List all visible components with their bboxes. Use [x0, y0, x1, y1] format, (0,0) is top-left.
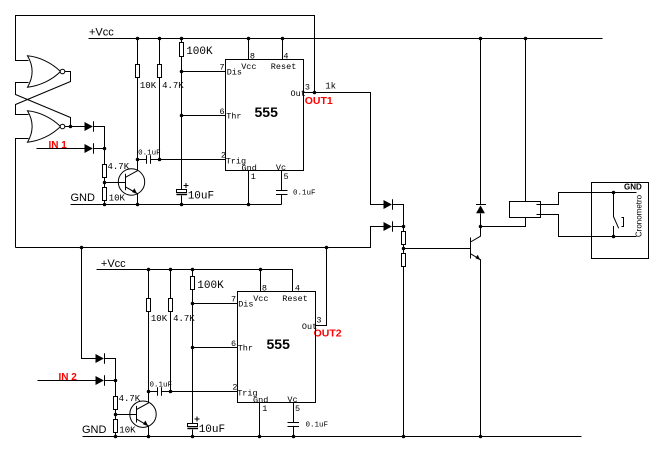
- wire D4 cathode to node B: [393, 226, 404, 228]
- capacitor 0.1uF coupling: [138, 155, 160, 163]
- wire Dis pin7: [182, 71, 226, 73]
- diode D5: [96, 353, 105, 364]
- svg-text:1k: 1k: [325, 81, 336, 91]
- node flyback to Vcc: [479, 37, 483, 41]
- node Q2 base junction: [114, 413, 118, 417]
- wire Dis2 pin7: [193, 303, 238, 305]
- resistor 10K collector Q1: [136, 39, 140, 160]
- node OUT1: [313, 91, 317, 95]
- op-amp U3 555 timer box 2: [238, 292, 316, 403]
- box Cronometro: [592, 183, 649, 259]
- svg-text:100K: 100K: [186, 46, 213, 58]
- node switch top terminal: [612, 191, 616, 195]
- wire OUT1 to diode D3: [315, 93, 384, 205]
- resistor 100K timing 2: [191, 270, 195, 424]
- wire U2B out to U2A input cross couple B: [16, 83, 71, 127]
- node Q3 emitter to GND2: [479, 435, 483, 439]
- svg-text:10uF: 10uF: [199, 424, 225, 436]
- resistor R base chain lower: [402, 254, 406, 437]
- relay RL1 coil box: [510, 202, 541, 218]
- wire Vcc to relay coil: [525, 39, 527, 202]
- wire Thr2 pin6: [193, 347, 238, 349]
- node IN2 riser junction: [80, 246, 84, 250]
- wire D2 cathode to node IN1: [94, 148, 105, 150]
- wire D3 cathode to node B: [393, 205, 404, 227]
- ground rail GND2: [83, 436, 582, 438]
- node latch output junction: [69, 125, 73, 129]
- node 10K to Vcc2: [147, 268, 151, 272]
- svg-text:Dis: Dis: [238, 300, 253, 310]
- svg-text:Reset: Reset: [282, 294, 308, 304]
- wire IN 2 input: [38, 380, 96, 382]
- wire trig to pin2: [160, 159, 226, 161]
- node Q3 base junction: [402, 247, 406, 251]
- node 10uF to GND1: [180, 203, 184, 207]
- pin 5 Vc stub 2: [293, 403, 295, 423]
- svg-text:Thr: Thr: [226, 111, 241, 121]
- node trig junction: [158, 158, 162, 162]
- svg-text:555: 555: [255, 104, 279, 120]
- wire IN 1 input: [37, 148, 85, 150]
- node 100K to Vcc2: [191, 268, 195, 272]
- wire base Q1: [105, 182, 126, 184]
- node discharge2 junction: [191, 302, 195, 306]
- wire Q3 base: [404, 248, 471, 250]
- svg-text:0.1uF: 0.1uF: [150, 382, 173, 390]
- svg-text:4: 4: [295, 284, 300, 294]
- node OUT2 riser junction: [325, 246, 329, 250]
- svg-text:Vcc: Vcc: [241, 62, 256, 72]
- svg-text:Thr: Thr: [238, 343, 253, 353]
- wire relay contact NO: [537, 215, 637, 237]
- svg-text:IN 1: IN 1: [49, 140, 68, 151]
- node 100K to Vcc: [180, 37, 184, 41]
- svg-text:10K: 10K: [119, 426, 136, 436]
- svg-text:5: 5: [295, 404, 300, 414]
- power rail +Vcc top: [89, 38, 603, 40]
- wire U2B lower input to bottom loop: [16, 139, 29, 248]
- wire OUT2 riser: [316, 248, 327, 326]
- svg-text:OUT1: OUT1: [305, 95, 333, 107]
- nor-gate U2A latch top: [28, 56, 65, 87]
- svg-text:GND: GND: [71, 192, 96, 204]
- capacitor 10uF timing 2: [187, 417, 199, 437]
- wire bottom loop OUT2 feedback: [16, 227, 384, 248]
- diode D3: [384, 199, 393, 210]
- wire trig2 to pin2: [171, 391, 238, 393]
- capacitor 0.1uF control 2: [288, 423, 300, 437]
- diode D1: [85, 121, 94, 132]
- node 4.7K to Vcc2: [169, 268, 173, 272]
- node threshold2 junction: [191, 346, 195, 350]
- svg-text:Cronometro: Cronometro: [635, 194, 644, 237]
- pin 1 Gnd stub: [248, 171, 250, 205]
- node Q1 base junction: [103, 181, 107, 185]
- svg-text:Dis: Dis: [227, 68, 242, 78]
- node switch bottom terminal: [612, 235, 616, 239]
- svg-text:10K: 10K: [140, 81, 157, 91]
- svg-text:Reset: Reset: [271, 62, 297, 72]
- wire U2A out to U2B input cross couple A: [16, 72, 71, 115]
- svg-text:7: 7: [220, 62, 225, 72]
- resistor 10K pulldown Q1: [103, 183, 107, 205]
- node discharge junction: [180, 70, 184, 74]
- pin 8 Vcc stub 2: [260, 270, 262, 292]
- op-amp U1 555 timer box: [226, 60, 304, 171]
- ground rail GND1: [71, 204, 282, 206]
- svg-text:10K: 10K: [109, 194, 126, 204]
- diode D4: [384, 221, 393, 232]
- transistor Q2: [130, 392, 156, 437]
- node 10K to Vcc: [136, 37, 140, 41]
- svg-text:10K: 10K: [151, 314, 168, 324]
- wire Vcc to flyback diode: [480, 39, 482, 205]
- svg-text:Out: Out: [291, 89, 306, 99]
- node relay to Vcc: [524, 37, 528, 41]
- node Q1 collector junction: [136, 158, 140, 162]
- node Q2 emitter to GND2: [147, 435, 151, 439]
- pin 8 Vcc stub: [248, 39, 250, 60]
- svg-text:4.7K: 4.7K: [162, 81, 184, 91]
- svg-text:4.7K: 4.7K: [108, 162, 130, 172]
- transistor Q1: [118, 160, 144, 205]
- capacitor 0.1uF control: [276, 191, 288, 205]
- node 10uF to GND2: [191, 435, 195, 439]
- node IN2 junction: [114, 379, 118, 383]
- resistor 4.7K base Q1: [103, 149, 107, 183]
- wire Thr pin6: [182, 115, 226, 117]
- switch SW1 pushbutton: [614, 193, 624, 237]
- resistor R base chain upper: [402, 227, 406, 254]
- svg-text:OUT2: OUT2: [314, 328, 342, 340]
- svg-text:0.1uF: 0.1uF: [138, 150, 161, 158]
- resistor 10K pulldown Q2: [114, 415, 118, 437]
- svg-text:Gnd: Gnd: [242, 163, 257, 173]
- wire latch out to diode D1: [71, 126, 85, 128]
- svg-text:10uF: 10uF: [188, 191, 214, 203]
- diode D7 flyback: [476, 205, 486, 227]
- node B diodes junction: [402, 225, 406, 229]
- pin 3 Out stub: [304, 92, 315, 94]
- resistor 10K collector Q2: [147, 270, 151, 392]
- svg-text:0.1uF: 0.1uF: [293, 190, 316, 198]
- diode D6: [96, 375, 105, 386]
- svg-text:Vcc: Vcc: [253, 294, 268, 304]
- wire base Q2: [116, 414, 137, 416]
- svg-text:Gnd: Gnd: [253, 395, 268, 405]
- node 10K to GND2: [114, 435, 118, 439]
- wire relay contact common: [537, 193, 637, 205]
- node 10K to GND1: [103, 203, 107, 207]
- nor-gate U2B latch bottom: [28, 111, 65, 142]
- node IN1 junction: [103, 147, 107, 151]
- pin 4 Reset stub: [282, 39, 284, 60]
- svg-text:Vc: Vc: [287, 395, 297, 405]
- resistor 4.7K base Q2: [114, 381, 118, 415]
- node threshold junction: [180, 114, 184, 118]
- svg-text:0.1uF: 0.1uF: [306, 422, 329, 430]
- wire D1 cathode down to node IN1: [94, 127, 105, 149]
- wire D5 cathode to node IN2: [105, 359, 116, 381]
- svg-text:6: 6: [220, 107, 225, 117]
- svg-text:GND: GND: [624, 182, 642, 191]
- svg-text:4: 4: [283, 52, 288, 62]
- capacitor 10uF timing: [176, 183, 188, 205]
- node trig2 junction: [169, 390, 173, 394]
- node 4.7K to Vcc: [158, 37, 162, 41]
- resistor 4.7K trig pullup 2: [169, 270, 173, 392]
- svg-text:8: 8: [262, 284, 267, 294]
- svg-text:4.7K: 4.7K: [173, 314, 195, 324]
- svg-text:Vc: Vc: [276, 163, 286, 173]
- svg-text:IN 2: IN 2: [59, 372, 78, 383]
- transistor Q3: [471, 227, 481, 437]
- svg-text:+Vcc: +Vcc: [101, 258, 126, 270]
- node Q1 emitter to GND1: [136, 203, 140, 207]
- svg-text:7: 7: [231, 294, 236, 304]
- node Q3 collector junction: [479, 225, 483, 229]
- resistor 100K timing: [180, 39, 184, 191]
- power rail +Vcc bottom: [97, 270, 293, 292]
- svg-text:5: 5: [284, 172, 289, 182]
- node R chain to GND2: [402, 435, 406, 439]
- wire relay coil return to Q3 collector: [481, 218, 526, 227]
- pin 5 Vc stub: [281, 171, 283, 191]
- capacitor 0.1uF coupling 2: [149, 387, 171, 395]
- wire feedback OUT1 to latch set input (top loop): [16, 16, 315, 93]
- svg-text:100K: 100K: [197, 280, 224, 292]
- pin 1 Gnd stub 2: [259, 403, 261, 437]
- wire loop to diode D5: [82, 248, 96, 359]
- svg-text:8: 8: [250, 52, 255, 62]
- node 0.1uF to GND2: [292, 435, 296, 439]
- svg-text:6: 6: [231, 339, 236, 349]
- node Q2 collector junction: [147, 390, 151, 394]
- wire D6 cathode to node IN2: [105, 380, 116, 382]
- resistor 4.7K trig pullup: [158, 39, 162, 160]
- svg-text:+Vcc: +Vcc: [89, 27, 114, 39]
- svg-text:555: 555: [267, 336, 291, 352]
- svg-text:Out: Out: [302, 322, 317, 332]
- diode D2: [85, 143, 94, 154]
- svg-text:GND: GND: [82, 424, 107, 436]
